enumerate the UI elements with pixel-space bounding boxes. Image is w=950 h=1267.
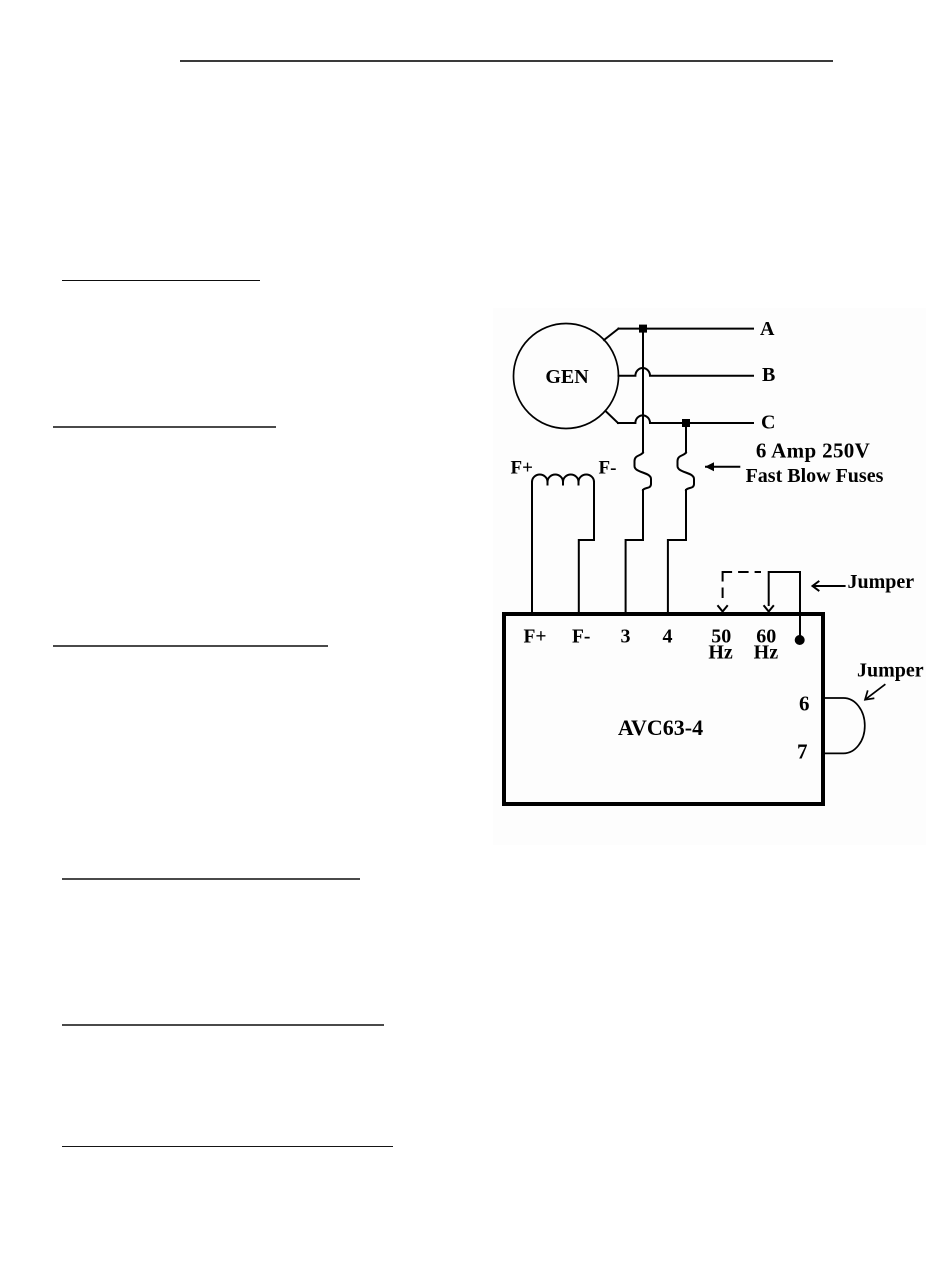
svg-text:3: 3	[621, 626, 631, 648]
heading underline 3	[53, 645, 328, 647]
arrow to frequency jumper	[814, 585, 845, 587]
wire F- down to terminal F-	[579, 482, 594, 613]
scan background	[493, 308, 926, 845]
arrow to 6-7 jumper loop	[867, 685, 885, 699]
svg-text:6 Amp 250V: 6 Amp 250V	[756, 439, 870, 463]
node A junction dot	[639, 325, 647, 333]
svg-text:Jumper: Jumper	[848, 571, 915, 593]
wire phase C diagonal from generator	[606, 412, 618, 424]
jumper loop terminals 6-7	[825, 698, 865, 753]
heading underline 5	[62, 1024, 384, 1026]
svg-text:C: C	[761, 412, 775, 434]
wire phase A	[619, 328, 754, 330]
fuse note arrow	[706, 466, 739, 468]
svg-text:F-: F-	[572, 627, 590, 648]
circuit schematic scanned figure	[480, 295, 940, 855]
wire fuse F1 to terminal 3	[626, 490, 643, 613]
dashed jumper wire to 50Hz	[723, 572, 760, 605]
svg-text:4: 4	[663, 626, 673, 648]
top heading underline	[180, 60, 833, 62]
wire phase C with crossover hop	[618, 415, 753, 423]
svg-text:Hz: Hz	[708, 642, 733, 664]
heading underline 1	[62, 280, 261, 282]
solid jumper wire to 60Hz	[769, 572, 800, 635]
heading underline 2	[53, 426, 277, 428]
svg-text:6: 6	[799, 692, 810, 716]
svg-text:F+: F+	[511, 458, 533, 479]
svg-text:F-: F-	[599, 458, 617, 479]
arrowhead at 60Hz	[764, 606, 773, 612]
svg-text:AVC63-4: AVC63-4	[618, 715, 703, 740]
wire phase B with crossover hop	[619, 368, 754, 376]
node dot at 60Hz jumper terminal	[795, 635, 805, 645]
svg-text:F+: F+	[524, 627, 547, 648]
fuse F2	[678, 453, 695, 491]
generator GEN circle	[514, 324, 619, 429]
wire node A down to fuse F1	[642, 329, 644, 453]
heading underline 6	[62, 1146, 393, 1148]
wire node C down to fuse F2	[685, 423, 687, 453]
fuse F1	[635, 453, 652, 491]
wire fuse F2 to terminal 4	[668, 490, 686, 613]
svg-text:GEN: GEN	[545, 366, 589, 388]
svg-text:Jumper: Jumper	[857, 660, 924, 682]
AVC63-4 regulator box	[504, 614, 823, 804]
heading underline 4	[62, 878, 361, 880]
svg-text:Fast Blow Fuses: Fast Blow Fuses	[746, 465, 884, 487]
wire F+ down to terminal F+	[531, 482, 533, 613]
svg-text:7: 7	[797, 740, 808, 764]
node C junction dot	[682, 419, 690, 427]
arrowhead at 50Hz	[718, 606, 727, 612]
field winding coil F+ to F-	[532, 475, 594, 486]
svg-text:Hz: Hz	[754, 642, 779, 664]
wire phase A diagonal from generator	[604, 329, 619, 340]
svg-text:A: A	[760, 318, 775, 340]
svg-text:B: B	[762, 364, 775, 386]
